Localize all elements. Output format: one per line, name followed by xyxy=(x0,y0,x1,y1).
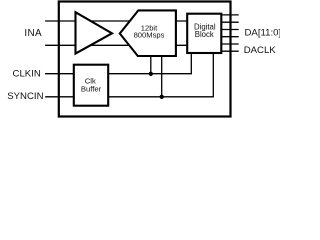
clock buffer U3 xyxy=(74,65,108,106)
svg-text:Buffer: Buffer xyxy=(81,84,102,93)
svg-text:INA: INA xyxy=(24,28,42,39)
op-amp input buffer (triangle) xyxy=(76,12,113,53)
svg-text:800Msps: 800Msps xyxy=(134,31,165,40)
svg-text:Block: Block xyxy=(195,30,214,39)
wire INA+ (upper analog input) xyxy=(45,20,187,22)
junction sync node xyxy=(160,95,164,99)
outer box (chip boundary) xyxy=(59,2,231,117)
wire ADC sync pin drop xyxy=(161,54,163,97)
svg-text:CLKIN: CLKIN xyxy=(13,69,41,80)
bus pin DA bit line 2 xyxy=(221,21,239,23)
ADC core U1 (12bit 800Msps pentagon) xyxy=(120,10,176,56)
junction clock node xyxy=(149,72,153,76)
wire ADC clock pin drop xyxy=(150,54,152,74)
wire SYNCIN sync path xyxy=(45,53,213,97)
bus pin DA bit line 3 xyxy=(221,29,239,31)
svg-text:DA[11:0]: DA[11:0] xyxy=(245,28,281,39)
wire CLKIN clock path xyxy=(45,53,191,74)
wire DACLK output xyxy=(221,50,239,52)
svg-text:SYNCIN: SYNCIN xyxy=(7,91,43,102)
wire INA- (lower analog input) xyxy=(45,44,187,46)
svg-text:DACLK: DACLK xyxy=(244,45,277,56)
bus pin DA bit line 1 xyxy=(221,14,239,16)
bus pin DA bit line 4 xyxy=(221,36,239,38)
digital block U2 xyxy=(187,14,221,53)
bus pin DA bit line 5 xyxy=(221,43,239,45)
